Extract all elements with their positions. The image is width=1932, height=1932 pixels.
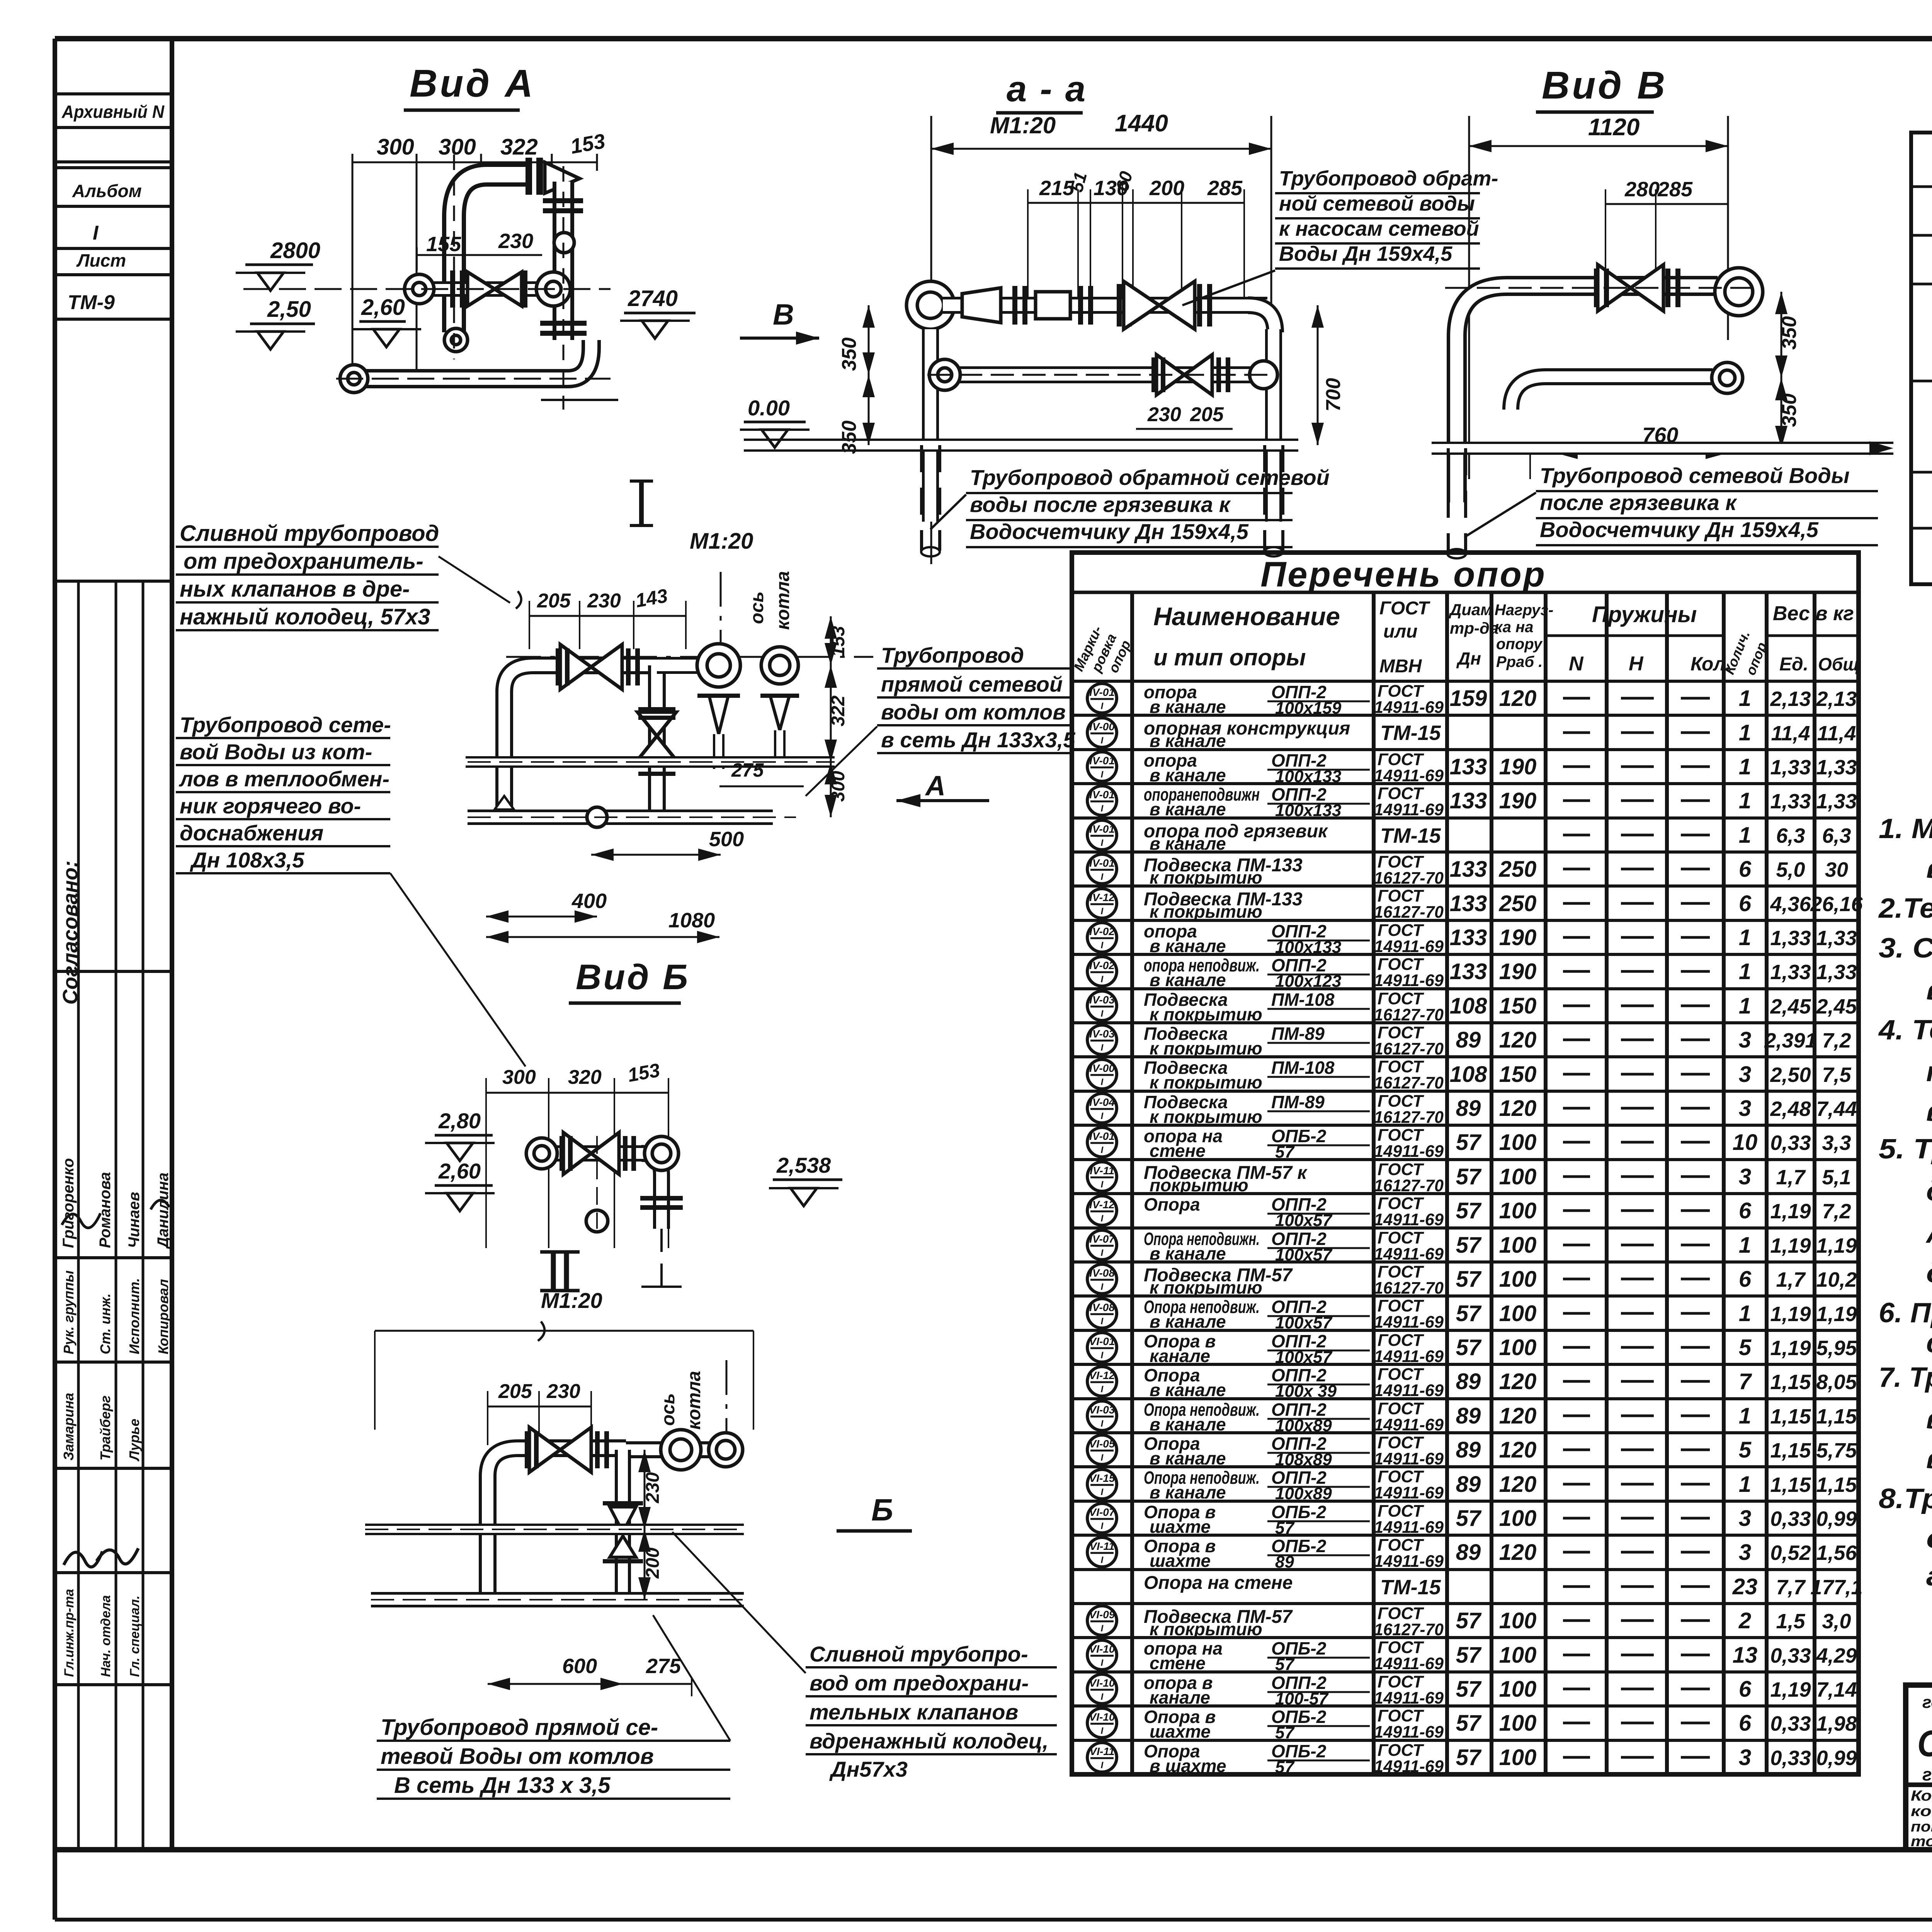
table row 29: опора на (1087, 1638, 1857, 1674)
svg-text:300: 300 (502, 1066, 536, 1088)
callout: direct network water label (right of section I) (806, 643, 1075, 807)
svg-text:1: 1 (1739, 1233, 1751, 1258)
svg-text:1,15: 1,15 (1816, 1473, 1857, 1497)
svg-text:275: 275 (646, 1655, 681, 1678)
svg-text:котлами„Универсал-6м": котлами„Универсал-6м" (1911, 1803, 1932, 1820)
svg-text:57: 57 (1456, 1267, 1482, 1292)
svg-text:к покрытию: к покрытию (1150, 1004, 1262, 1024)
svg-text:89: 89 (1456, 1403, 1481, 1429)
svg-text:100: 100 (1499, 1335, 1537, 1360)
svg-text:IV-02: IV-02 (1089, 959, 1115, 971)
svg-text:1,7: 1,7 (1776, 1268, 1806, 1291)
svg-text:Согласовано:: Согласовано: (59, 861, 82, 1005)
svg-text:г. Москва: г. Москва (1922, 1764, 1932, 1784)
svg-text:1080: 1080 (668, 909, 715, 932)
svg-text:133: 133 (1450, 925, 1487, 950)
svg-text:вой Воды из кот-: вой Воды из кот- (180, 740, 372, 764)
svg-text:89: 89 (1456, 1096, 1481, 1121)
view B lower dims and ground (1432, 292, 1893, 479)
svg-text:Дн 108х3,5: Дн 108х3,5 (190, 848, 304, 872)
svg-text:14911-69: 14911-69 (1374, 698, 1444, 717)
svg-text:100: 100 (1499, 1130, 1537, 1155)
svg-text:14911-69: 14911-69 (1374, 1518, 1444, 1537)
svg-text:Исполнит.: Исполнит. (126, 1278, 142, 1354)
svg-text:14911-69: 14911-69 (1374, 1142, 1444, 1161)
label: network water from boilers to heat exchanger (176, 713, 526, 1066)
svg-text:IV-01: IV-01 (1089, 857, 1115, 869)
table row 7: Подвеска ПМ-133 (1087, 886, 1863, 922)
svg-text:VI-01: VI-01 (1089, 1335, 1115, 1347)
svg-text:16127-70: 16127-70 (1374, 1073, 1444, 1092)
svg-text:120: 120 (1499, 1403, 1537, 1429)
table row 25: Опора в (1087, 1502, 1857, 1537)
svg-text:320: 320 (568, 1066, 602, 1088)
svg-text:1: 1 (1739, 720, 1751, 745)
svg-text:VI-15: VI-15 (1089, 1472, 1115, 1484)
view B dimensions (1469, 114, 1728, 479)
section II piping (526, 1133, 683, 1287)
svg-text:поверхностью нагрева по41,8м: поверхностью нагрева по41,8м (1911, 1819, 1932, 1835)
svg-text:89: 89 (1456, 1369, 1481, 1394)
svg-text:3: 3 (1739, 1745, 1751, 1770)
svg-text:1. Монтажные чертежи трубопр: 1. Монтажные чертежи трубопроводов котел… (1879, 813, 1932, 844)
svg-text:1120: 1120 (1588, 114, 1639, 141)
svg-text:1440: 1440 (1115, 110, 1168, 137)
svg-text:2,391: 2,391 (1764, 1029, 1816, 1052)
svg-text:1,7: 1,7 (1776, 1166, 1806, 1189)
svg-text:1,56: 1,56 (1816, 1541, 1857, 1565)
svg-text:100: 100 (1499, 1677, 1537, 1702)
svg-text:опору: опору (1496, 636, 1543, 653)
svg-text:тельных клапанов: тельных клапанов (810, 1700, 1018, 1724)
svg-text:133: 133 (1450, 754, 1487, 779)
svg-text:100: 100 (1499, 1608, 1537, 1633)
stamp column grid (55, 94, 172, 1850)
svg-text:6: 6 (1739, 1677, 1752, 1702)
svg-text:108: 108 (1450, 993, 1488, 1019)
svg-text:Арматуру расположить в местах: Арматуру расположить в местах удобных (1925, 1218, 1932, 1249)
section II mark (540, 1252, 602, 1313)
svg-text:канале: канале (1150, 1687, 1210, 1708)
svg-text:1,15: 1,15 (1770, 1405, 1811, 1428)
svg-text:1: 1 (1739, 993, 1751, 1019)
svg-text:14911-69: 14911-69 (1374, 1483, 1444, 1502)
label: drain pipe from safety valves (top) (176, 521, 510, 630)
svg-text:100: 100 (1499, 1233, 1537, 1258)
svg-text:канале: канале (1150, 1346, 1210, 1366)
svg-text:2,50: 2,50 (1770, 1063, 1811, 1087)
svg-text:0,99: 0,99 (1816, 1747, 1857, 1770)
svg-text:к покрытию: к покрытию (1150, 1277, 1262, 1298)
svg-text:14911-69: 14911-69 (1374, 1723, 1444, 1742)
svg-text:14911-69: 14911-69 (1374, 1415, 1444, 1434)
svg-text:14911-69: 14911-69 (1374, 1245, 1444, 1264)
svg-text:для обслуживания.: для обслуживания. (1926, 1258, 1932, 1289)
svg-text:26,16: 26,16 (1810, 893, 1863, 916)
table row 26: Опора в (1087, 1536, 1857, 1571)
table row 10: Подвеска (1087, 989, 1857, 1024)
svg-text:Вид А: Вид А (410, 62, 535, 105)
svg-text:120: 120 (1499, 686, 1537, 711)
view A dimension row 300 300 322 153 (352, 129, 607, 394)
table row 13: Подвеска (1087, 1092, 1857, 1127)
svg-text:2,13: 2,13 (1770, 687, 1811, 711)
svg-text:VI-03: VI-03 (1089, 1404, 1115, 1416)
svg-text:Б: Б (871, 1493, 893, 1527)
svg-text:280: 280 (1624, 178, 1660, 201)
svg-text:285: 285 (1657, 178, 1693, 201)
svg-text:после грязевика к: после грязевика к (1540, 490, 1737, 515)
table row 12: Подвеска (1087, 1057, 1851, 1092)
svg-text:3: 3 (1739, 1506, 1751, 1531)
svg-text:0.00: 0.00 (748, 396, 790, 420)
svg-text:Архивный N: Архивный N (61, 102, 165, 122)
svg-text:1: 1 (1739, 959, 1751, 984)
svg-text:в канале: в канале (1150, 1448, 1226, 1468)
svg-text:57: 57 (1456, 1164, 1482, 1189)
svg-text:ка на: ка на (1495, 619, 1534, 636)
svg-text:ных клапанов в дре-: ных клапанов в дре- (180, 577, 410, 602)
svg-text:6: 6 (1739, 1711, 1752, 1736)
svg-text:57: 57 (1456, 1301, 1482, 1326)
svg-text:16127-70: 16127-70 (1374, 1108, 1444, 1127)
table row 1: опора (1087, 682, 1857, 718)
svg-text:ось: ось (747, 591, 767, 624)
view Б axis label (658, 1360, 726, 1461)
svg-text:6,3: 6,3 (1776, 824, 1805, 847)
table row 14: опора на (1087, 1126, 1851, 1162)
svg-text:в канале: в канале (1150, 1243, 1226, 1264)
svg-text:14911-69: 14911-69 (1374, 766, 1444, 785)
svg-text:доснабжения: доснабжения (180, 821, 323, 845)
svg-text:1,33: 1,33 (1770, 927, 1811, 950)
table row 21: Опора (1087, 1365, 1857, 1401)
svg-text:собранном виде производить д: собранном виде производить давлением1,25… (1926, 1328, 1932, 1359)
svg-text:VI-07: VI-07 (1089, 1506, 1116, 1518)
svg-text:7. Трубопроводы провести с ук: 7. Трубопроводы провести с уклоном данны… (1879, 1362, 1932, 1393)
svg-text:500: 500 (709, 828, 744, 851)
svg-text:155: 155 (426, 233, 461, 256)
table row 28: Подвеска ПМ-57 (1087, 1604, 1851, 1639)
svg-text:выполнена на листах ТМ-10÷ ТМ-: выполнена на листах ТМ-10÷ ТМ-12. (1926, 975, 1932, 1006)
svg-text:300: 300 (377, 134, 414, 160)
svg-text:2740: 2740 (628, 286, 678, 311)
svg-text:1: 1 (1739, 823, 1751, 848)
svg-text:16127-70: 16127-70 (1374, 903, 1444, 922)
svg-text:IV-01: IV-01 (1089, 1130, 1115, 1142)
svg-text:ГОСТ: ГОСТ (1379, 598, 1430, 619)
svg-text:САНТЕХПРОЕКТ: САНТЕХПРОЕКТ (1917, 1723, 1932, 1764)
view A piping (243, 155, 618, 410)
table row 24: Опора неподвиж. (1087, 1467, 1857, 1503)
view B dashed riser (1447, 448, 1466, 558)
svg-text:котла: котла (773, 571, 793, 630)
svg-text:ПМ-108: ПМ-108 (1271, 990, 1335, 1010)
svg-text:5. Трубопроводы Ду≤ 50 крепит: 5. Трубопроводы Ду≤ 50 крепить по месту,… (1879, 1134, 1932, 1165)
svg-text:VI-11: VI-11 (1090, 1745, 1115, 1757)
callout: network water after mud trap to meter (1464, 463, 1878, 545)
svg-text:16127-70: 16127-70 (1374, 869, 1444, 888)
svg-text:14911-69: 14911-69 (1374, 1449, 1444, 1468)
svg-text:14911-69: 14911-69 (1374, 937, 1444, 956)
svg-text:1,19: 1,19 (1816, 1234, 1857, 1257)
svg-text:в канале: в канале (1150, 697, 1226, 717)
svg-text:6: 6 (1739, 1267, 1752, 1292)
svg-text:IV-00: IV-00 (1089, 1062, 1115, 1074)
svg-text:1,5: 1,5 (1776, 1610, 1805, 1633)
svg-text:VI-05: VI-05 (1089, 1438, 1115, 1450)
svg-text:ТМ-9: ТМ-9 (68, 291, 115, 314)
table row 11: Подвеска (1087, 1023, 1851, 1058)
svg-text:в канале: в канале (1150, 970, 1226, 990)
svg-text:0,52: 0,52 (1770, 1541, 1811, 1565)
svg-text:ось: ось (658, 1393, 679, 1426)
svg-text:1,33: 1,33 (1770, 961, 1811, 984)
svg-text:2,45: 2,45 (1816, 995, 1857, 1018)
section I mark (630, 481, 753, 554)
label: direct network water to net (bottom left) (377, 1615, 730, 1799)
svg-text:133: 133 (1450, 857, 1487, 882)
svg-text:6: 6 (1739, 857, 1752, 882)
table row 9: опора неподвиж. (1087, 955, 1857, 991)
svg-text:воды после грязевика к: воды после грязевика к (970, 492, 1231, 517)
svg-text:в канале: в канале (1150, 1414, 1226, 1434)
svg-text:в канале: в канале (1150, 1311, 1226, 1332)
title block: org cell (1911, 1691, 1932, 1850)
svg-text:16127-70: 16127-70 (1374, 1005, 1444, 1024)
table row 18: Подвеска ПМ-57 (1087, 1262, 1857, 1298)
svg-text:4,36: 4,36 (1770, 893, 1811, 916)
table row 19: Опора неподвиж. (1087, 1296, 1857, 1332)
svg-text:тевой Воды от котлов: тевой Воды от котлов (381, 1744, 654, 1769)
svg-text:250: 250 (1499, 891, 1537, 916)
svg-text:в канале: в канале (1150, 731, 1226, 751)
notes text (1878, 813, 1932, 1592)
section a-a upper pipe run (906, 281, 1275, 332)
svg-text:выполнена на листах ТМ-13, ТМ: выполнена на листах ТМ-13, ТМ-14 (1926, 1096, 1932, 1127)
svg-text:IV-08: IV-08 (1089, 1267, 1115, 1279)
svg-text:230: 230 (1147, 403, 1181, 426)
svg-text:в канале: в канале (1150, 936, 1226, 956)
svg-text:57: 57 (1456, 1643, 1482, 1668)
svg-text:350: 350 (838, 337, 861, 371)
view B piping (1445, 265, 1763, 502)
svg-text:в канале: в канале (1150, 1482, 1226, 1502)
svg-text:14911-69: 14911-69 (1374, 1654, 1444, 1673)
svg-text:30: 30 (1825, 858, 1848, 881)
table row 22: Опора неподвиж. (1087, 1399, 1857, 1435)
svg-text:0,33: 0,33 (1770, 1712, 1811, 1735)
svg-text:Котельная с 4 водогрейными: Котельная с 4 водогрейными (1911, 1788, 1932, 1804)
svg-text:В сеть Дн 133 х 3,5: В сеть Дн 133 х 3,5 (394, 1773, 611, 1798)
svg-text:2800: 2800 (270, 238, 320, 263)
svg-text:11,4: 11,4 (1817, 722, 1856, 745)
svg-text:к покрытию: к покрытию (1150, 1619, 1262, 1639)
table row 20: Опора в (1087, 1331, 1857, 1367)
table row 6: Подвеска ПМ-133 (1087, 852, 1848, 888)
section a-a dashed risers below (921, 445, 1283, 556)
svg-text:3,3: 3,3 (1822, 1131, 1851, 1155)
svg-text:3: 3 (1739, 1027, 1751, 1053)
svg-text:1,19: 1,19 (1816, 1303, 1857, 1326)
svg-text:120: 120 (1499, 1096, 1537, 1121)
svg-text:шахте: шахте (1150, 1551, 1211, 1571)
svg-text:10: 10 (1733, 1130, 1758, 1155)
svg-text:159: 159 (1450, 686, 1487, 711)
svg-text:100: 100 (1499, 1198, 1537, 1223)
view Б piping (365, 1427, 744, 1600)
svg-text:Опора: Опора (1144, 1194, 1200, 1214)
svg-text:230: 230 (643, 1472, 663, 1503)
svg-text:IV-01: IV-01 (1089, 755, 1115, 767)
stamp column texts (59, 102, 172, 1677)
svg-text:Гл. специал.: Гл. специал. (128, 1595, 142, 1677)
svg-text:IV-02: IV-02 (1089, 925, 1115, 937)
svg-text:2,60: 2,60 (361, 295, 405, 320)
svg-text:57: 57 (1456, 1677, 1482, 1702)
svg-text:133: 133 (1450, 891, 1487, 916)
svg-text:0,33: 0,33 (1770, 1747, 1811, 1770)
svg-text:IV-01: IV-01 (1089, 789, 1115, 801)
svg-text:см. листы ТМ-1, ТМ-8, ТМ-13,: см. листы ТМ-1, ТМ-8, ТМ-13,ТМ-17 (1926, 1523, 1932, 1554)
table row 27: Опора на стене (1144, 1573, 1863, 1599)
svg-text:700: 700 (1322, 378, 1345, 412)
svg-text:14911-69: 14911-69 (1374, 971, 1444, 990)
svg-text:4,29: 4,29 (1816, 1644, 1857, 1667)
supports table: headers (1070, 598, 1859, 677)
svg-text:IV-08: IV-08 (1089, 1301, 1115, 1313)
svg-text:к покрытию: к покрытию (1150, 867, 1262, 888)
svg-text:Копировал: Копировал (155, 1279, 171, 1354)
svg-text:3: 3 (1739, 1540, 1751, 1565)
svg-text:3. Спецификация на трубопрово: 3. Спецификация на трубопроводы и армату… (1879, 933, 1932, 964)
table row 23: Опора (1087, 1433, 1857, 1469)
svg-text:трубопроводов, арматуры и обор: трубопроводов, арматуры и оборудования (1926, 1056, 1932, 1087)
svg-text:16127-70: 16127-70 (1374, 1176, 1444, 1195)
svg-text:14911-69: 14911-69 (1374, 1381, 1444, 1400)
svg-text:230: 230 (546, 1380, 580, 1403)
svg-text:230: 230 (587, 590, 621, 612)
table row 32: Опора (1087, 1741, 1857, 1777)
svg-text:16127-70: 16127-70 (1374, 1279, 1444, 1298)
view Б top broken dimension line (375, 1321, 753, 1430)
svg-text:1: 1 (1739, 1301, 1751, 1326)
svg-text:400: 400 (571, 889, 607, 913)
svg-text:Ст. инж.: Ст. инж. (97, 1293, 113, 1354)
svg-text:5,1: 5,1 (1822, 1166, 1851, 1189)
svg-text:190: 190 (1499, 925, 1537, 950)
svg-text:322: 322 (500, 134, 538, 160)
svg-text:IV-03: IV-03 (1089, 994, 1115, 1006)
table row 31: Опора в (1087, 1706, 1857, 1742)
svg-text:М1:20: М1:20 (541, 1288, 602, 1313)
svg-text:14911-69: 14911-69 (1374, 800, 1444, 819)
svg-text:120: 120 (1499, 1472, 1537, 1497)
svg-text:Сливной трубопро-: Сливной трубопро- (810, 1642, 1028, 1666)
svg-text:1,15: 1,15 (1770, 1473, 1811, 1497)
svg-text:250: 250 (1499, 857, 1537, 882)
svg-text:в канале: в канале (1150, 765, 1226, 785)
svg-text:Григоренко: Григоренко (60, 1158, 77, 1248)
svg-text:14911-69: 14911-69 (1374, 1552, 1444, 1571)
svg-text:Трубопровод обрат-: Трубопровод обрат- (1279, 167, 1498, 190)
svg-text:Перечень опор: Перечень опор (1260, 555, 1546, 594)
svg-text:1,33: 1,33 (1816, 961, 1857, 984)
table row 3: опора (1087, 750, 1857, 786)
svg-text:в канале: в канале (1150, 833, 1226, 854)
section I axis label (506, 571, 873, 657)
table row 8: опора (1087, 921, 1857, 957)
svg-text:прямой сетевой: прямой сетевой (881, 672, 1063, 696)
svg-text:1: 1 (1739, 686, 1751, 711)
svg-text:2,48: 2,48 (1770, 1097, 1811, 1121)
svg-text:1,33: 1,33 (1770, 756, 1811, 779)
svg-text:190: 190 (1499, 754, 1537, 779)
svg-text:Замарина: Замарина (61, 1393, 77, 1461)
svg-text:М1:20: М1:20 (990, 112, 1056, 138)
svg-text:100: 100 (1499, 1301, 1537, 1326)
legend box (1911, 133, 1932, 584)
section a-a ground line and levels (740, 298, 1345, 454)
callout: return network water to pumps (1182, 167, 1498, 305)
svg-text:57: 57 (1456, 1506, 1482, 1531)
svg-text:16127-70: 16127-70 (1374, 1039, 1444, 1058)
svg-text:89: 89 (1456, 1437, 1481, 1463)
svg-text:Нач. отдела: Нач. отдела (99, 1595, 113, 1677)
svg-text:или: или (1383, 621, 1418, 642)
svg-text:и тип опоры: и тип опоры (1153, 645, 1306, 670)
svg-text:Вес в кг: Вес в кг (1773, 602, 1854, 625)
svg-text:Ед.: Ед. (1779, 654, 1808, 675)
svg-text:1,33: 1,33 (1770, 790, 1811, 813)
svg-text:2,45: 2,45 (1770, 995, 1811, 1018)
svg-text:7,44: 7,44 (1816, 1097, 1857, 1121)
svg-text:Водосчетчику Дн 159х4,5: Водосчетчику Дн 159х4,5 (970, 519, 1249, 544)
svg-text:Общ: Общ (1818, 654, 1859, 674)
svg-text:к покрытию: к покрытию (1150, 1038, 1262, 1058)
svg-text:VI-09: VI-09 (1089, 1609, 1115, 1621)
svg-text:190: 190 (1499, 959, 1537, 984)
svg-text:ТМ-15: ТМ-15 (1380, 1576, 1441, 1599)
svg-text:к покрытию: к покрытию (1150, 1107, 1262, 1127)
svg-text:Н: Н (1629, 653, 1644, 675)
svg-text:5,95: 5,95 (1816, 1337, 1857, 1360)
callout: return network water after mud trap (930, 465, 1330, 547)
svg-text:стене: стене (1150, 1141, 1206, 1161)
svg-text:7,2: 7,2 (1822, 1200, 1851, 1223)
svg-text:VI-10: VI-10 (1089, 1643, 1115, 1655)
svg-text:B: B (773, 298, 794, 331)
svg-text:покрытию: покрытию (1150, 1175, 1248, 1195)
svg-text:1,98: 1,98 (1816, 1712, 1857, 1735)
svg-text:89: 89 (1456, 1540, 1481, 1565)
svg-text:стене: стене (1150, 1653, 1206, 1673)
svg-text:23: 23 (1732, 1574, 1758, 1599)
svg-text:МВН: МВН (1379, 656, 1422, 677)
svg-text:1: 1 (1739, 788, 1751, 813)
supports table: grid (1072, 592, 1859, 1774)
section a-a lower pipe run (927, 329, 1277, 522)
svg-text:шахте: шахте (1150, 1721, 1211, 1742)
svg-text:57: 57 (1456, 1711, 1482, 1736)
svg-text:57: 57 (1456, 1233, 1482, 1258)
svg-text:для их крепления предусмотрен: для их крепления предусмотрен в специфик… (1926, 1176, 1932, 1207)
svg-text:285: 285 (1207, 177, 1243, 200)
svg-text:11,4: 11,4 (1771, 722, 1810, 745)
svg-text:8,05: 8,05 (1816, 1371, 1857, 1394)
svg-text:ПМ-89: ПМ-89 (1271, 1024, 1325, 1044)
view Б dims 205 230 (488, 1380, 591, 1445)
